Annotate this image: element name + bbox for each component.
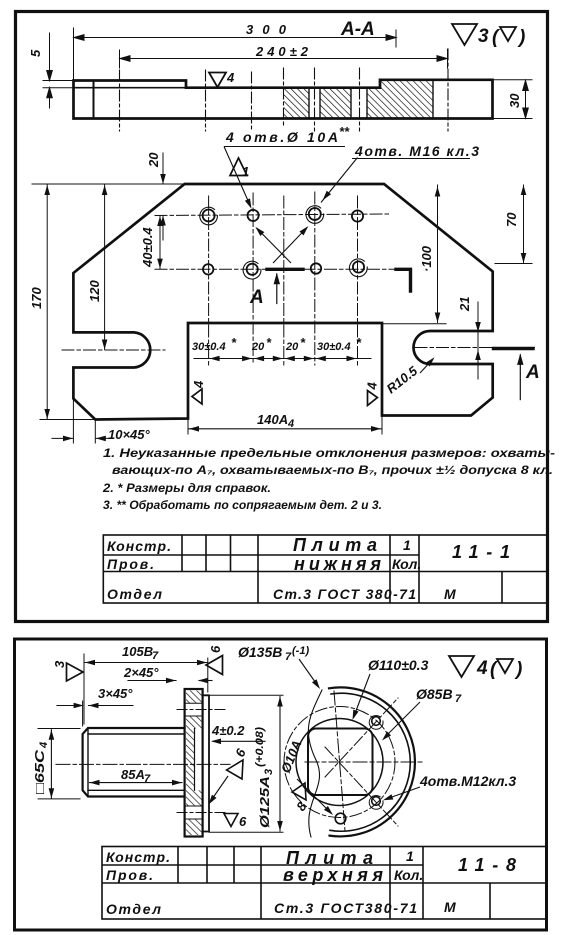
hole O10 r2c3 xyxy=(311,263,321,273)
square hole far edge inside flange xyxy=(194,729,196,791)
roughness mark V4 on section surface xyxy=(209,73,226,88)
svg-text:Констр.: Констр. xyxy=(107,538,171,554)
svg-text:4: 4 xyxy=(287,418,294,430)
roughness V4 marks at cutout edges xyxy=(192,389,377,406)
roughness mark V3 (V) top right xyxy=(452,24,516,45)
svg-text:240±2: 240±2 xyxy=(255,44,309,59)
svg-text:3: 3 xyxy=(263,769,275,775)
dim 40±0.4 xyxy=(159,216,161,269)
roughness V3 (left, rotated) xyxy=(67,663,84,681)
boss chamfer edge xyxy=(87,728,89,797)
section A-A: hatch fill regions xyxy=(284,80,433,119)
svg-text:А: А xyxy=(249,287,264,308)
svg-text:6: 6 xyxy=(208,645,223,653)
hole M16 r1c1 xyxy=(203,210,215,222)
section hole edges xyxy=(309,80,433,119)
svg-text:4: 4 xyxy=(365,382,380,391)
hole O10 r1c4 xyxy=(352,210,363,221)
drawing sheet frame (upper) xyxy=(16,12,548,622)
section plane trace thick segments xyxy=(267,268,303,271)
hole M16 r2c4 xyxy=(353,261,364,272)
svg-text:7: 7 xyxy=(285,651,292,663)
leader O135B7(-1) xyxy=(299,659,318,686)
section A-A outline of plate xyxy=(74,80,493,119)
hole O10 r1c2 xyxy=(248,210,259,221)
svg-text:М: М xyxy=(444,586,456,602)
hole M16 r2c2 xyxy=(247,264,258,275)
roughness V6 (bottom) xyxy=(224,814,238,827)
dim 2x45 xyxy=(128,680,176,682)
svg-text:**: ** xyxy=(339,124,350,139)
dim 140A4 xyxy=(187,419,189,435)
leader R10.5 xyxy=(420,359,433,373)
dimension 300 xyxy=(73,28,75,80)
svg-text:1: 1 xyxy=(406,848,414,864)
axis center line xyxy=(56,763,230,765)
svg-text:4отв.М12кл.3: 4отв.М12кл.3 xyxy=(419,773,516,789)
svg-text:3×45°: 3×45° xyxy=(98,686,133,701)
bolt hole center lines xyxy=(177,709,225,711)
flange outline xyxy=(185,689,203,837)
svg-text:Ø110±0.3: Ø110±0.3 xyxy=(368,657,429,673)
SIDE SECTION VIEW xyxy=(186,691,202,836)
bolt hole M12 lower right xyxy=(372,797,381,806)
svg-text:2×45°: 2×45° xyxy=(123,665,159,680)
svg-text:Ø85В: Ø85В xyxy=(416,686,453,702)
svg-text:7: 7 xyxy=(144,773,151,785)
svg-text:3. ** Обработать по сопрягаемы: 3. ** Обработать по сопрягаемым дет. 2 и… xyxy=(103,500,382,512)
svg-text:140А: 140А xyxy=(257,412,288,427)
central square hole xyxy=(308,729,373,796)
svg-text:30±0.4: 30±0.4 xyxy=(192,341,226,353)
svg-text:30±0.4: 30±0.4 xyxy=(317,341,351,353)
svg-text:40±0.4: 40±0.4 xyxy=(140,227,155,268)
svg-text:120: 120 xyxy=(87,280,102,302)
svg-text:4±0.2: 4±0.2 xyxy=(211,723,245,738)
svg-text:7: 7 xyxy=(455,693,462,705)
svg-text:20: 20 xyxy=(251,341,265,353)
svg-text:5: 5 xyxy=(28,49,43,57)
svg-text:10×45°: 10×45° xyxy=(108,427,151,442)
dim 70 (right) xyxy=(495,263,532,265)
bolt hole lines in flange xyxy=(186,702,202,704)
hole M16 r1c3 xyxy=(309,208,321,220)
section hole center lines xyxy=(120,49,449,131)
roughness V6 (lip, rotated with leader) xyxy=(227,760,244,779)
pin hole O10 bottom xyxy=(335,813,346,824)
svg-text:2. * Размеры для справок.: 2. * Размеры для справок. xyxy=(102,483,271,495)
dims 30±0.4 / 20 / 20 / 30±0.4 xyxy=(194,358,371,360)
leader: 4 otv O10A** xyxy=(224,147,358,264)
dim 65C4 (square) xyxy=(38,728,80,730)
svg-text:300: 300 xyxy=(246,22,287,37)
section inner edge x=93.5 xyxy=(93,81,95,119)
dim 100 (middle right) xyxy=(382,323,446,325)
dim 3x45 xyxy=(57,705,74,707)
leader O10A (rotated text) xyxy=(297,779,331,813)
center lines: hole rows xyxy=(155,214,390,216)
svg-text:Ø135В: Ø135В xyxy=(238,644,282,660)
center lines xyxy=(305,761,424,763)
svg-text:М: М xyxy=(444,899,456,915)
bolt hole M12 upper right xyxy=(372,717,381,726)
svg-text:Кол.: Кол. xyxy=(394,867,423,883)
dim 85A7 xyxy=(90,782,183,784)
dim 170 (left) xyxy=(32,183,155,185)
flange lip (O125) xyxy=(203,695,209,831)
svg-text:вающих-по А₇, охватываемых-по: вающих-по А₇, охватываемых-по В₇, прочих… xyxy=(112,465,553,477)
svg-text:7: 7 xyxy=(152,650,159,662)
svg-text:А-А: А-А xyxy=(340,19,375,40)
svg-text:Пров.: Пров. xyxy=(107,556,154,572)
svg-text:Пров.: Пров. xyxy=(106,867,153,883)
svg-text:□65С: □65С xyxy=(32,749,47,794)
svg-text:170: 170 xyxy=(29,287,44,309)
dim 21 (right) xyxy=(477,302,479,379)
roughness V6 (top of flange, rotated) xyxy=(206,656,223,675)
section arrow A (left) xyxy=(276,274,278,304)
svg-text:): ) xyxy=(514,659,522,680)
svg-text:1. Неуказанные предельные откл: 1. Неуказанные предельные отклонения раз… xyxy=(103,448,555,460)
dim 20 (top) xyxy=(155,183,185,185)
svg-text:3: 3 xyxy=(478,26,489,47)
svg-text:70: 70 xyxy=(504,212,519,227)
dimension 30 (right thickness) xyxy=(493,80,533,119)
svg-text:3: 3 xyxy=(52,660,67,668)
svg-text:Ст.3 ГОСТ380-71: Ст.3 ГОСТ380-71 xyxy=(274,900,417,916)
leader 4otv M12 kl.3 xyxy=(385,787,420,800)
roughness V8 rotated xyxy=(292,783,306,800)
outer circle O135 arc xyxy=(329,687,415,836)
inner circle O125 arc xyxy=(330,693,410,831)
svg-text:105В: 105В xyxy=(122,644,153,659)
svg-text:Кол.: Кол. xyxy=(392,556,421,572)
leader O110±0.3 xyxy=(354,674,370,716)
svg-text:30: 30 xyxy=(507,93,522,108)
svg-text:А: А xyxy=(525,362,540,383)
svg-text:20: 20 xyxy=(285,341,299,353)
roughness V4 (V) lower drawing xyxy=(449,656,513,677)
svg-text:21: 21 xyxy=(457,297,472,312)
dim 4±0.2 xyxy=(213,740,265,742)
svg-text:Ст.3 ГОСТ 380-71: Ст.3 ГОСТ 380-71 xyxy=(273,586,416,602)
svg-text:4отв. М16 кл.3: 4отв. М16 кл.3 xyxy=(354,143,479,159)
plate outline with chamfers, U-slots, central cutout xyxy=(73,184,492,420)
circle O85 xyxy=(296,719,383,806)
svg-text:(-1): (-1) xyxy=(292,645,309,657)
svg-text:4: 4 xyxy=(38,742,50,749)
svg-text:Ø125А: Ø125А xyxy=(257,776,272,828)
leader O85B7 xyxy=(384,702,420,738)
center lines: hole columns xyxy=(62,192,537,365)
svg-text:4: 4 xyxy=(476,658,488,679)
section arrow A (right) xyxy=(519,355,521,400)
dim 120 (left) xyxy=(104,185,106,350)
boss (square shank) outline xyxy=(83,728,185,797)
flange hatch xyxy=(186,691,202,704)
section recess line through left part xyxy=(74,87,187,89)
svg-text:Отдел: Отдел xyxy=(106,901,161,917)
break line (wavy) xyxy=(308,690,322,837)
svg-text:1: 1 xyxy=(403,537,411,553)
svg-text:4: 4 xyxy=(226,70,235,85)
bolt circle O110 (dash-dot) xyxy=(284,707,395,818)
dimension 5 (left) xyxy=(43,33,74,108)
dim O125A3(+0.08) xyxy=(209,694,283,696)
dimension 240±2 xyxy=(119,50,121,68)
boss inner chamfer lines xyxy=(88,733,185,735)
svg-text:Отдел: Отдел xyxy=(107,586,162,602)
sheet frame (lower) xyxy=(15,639,547,930)
svg-text:Констр.: Констр. xyxy=(106,849,170,865)
svg-text:20: 20 xyxy=(146,152,161,168)
svg-text:6: 6 xyxy=(239,814,247,829)
svg-text:1: 1 xyxy=(242,164,249,179)
svg-text:·100: ·100 xyxy=(419,245,434,272)
marker triangle 1 xyxy=(230,158,247,176)
svg-text:4: 4 xyxy=(191,380,206,389)
svg-text:(+0.08): (+0.08) xyxy=(254,727,266,767)
svg-text:85А: 85А xyxy=(121,767,145,782)
dim 105B7 xyxy=(83,654,85,724)
slot axes xyxy=(62,349,165,351)
hole O10 r2c1 xyxy=(203,264,213,274)
dim 10x45 (bottom left chamfer) xyxy=(72,400,74,443)
svg-text:): ) xyxy=(517,27,525,48)
